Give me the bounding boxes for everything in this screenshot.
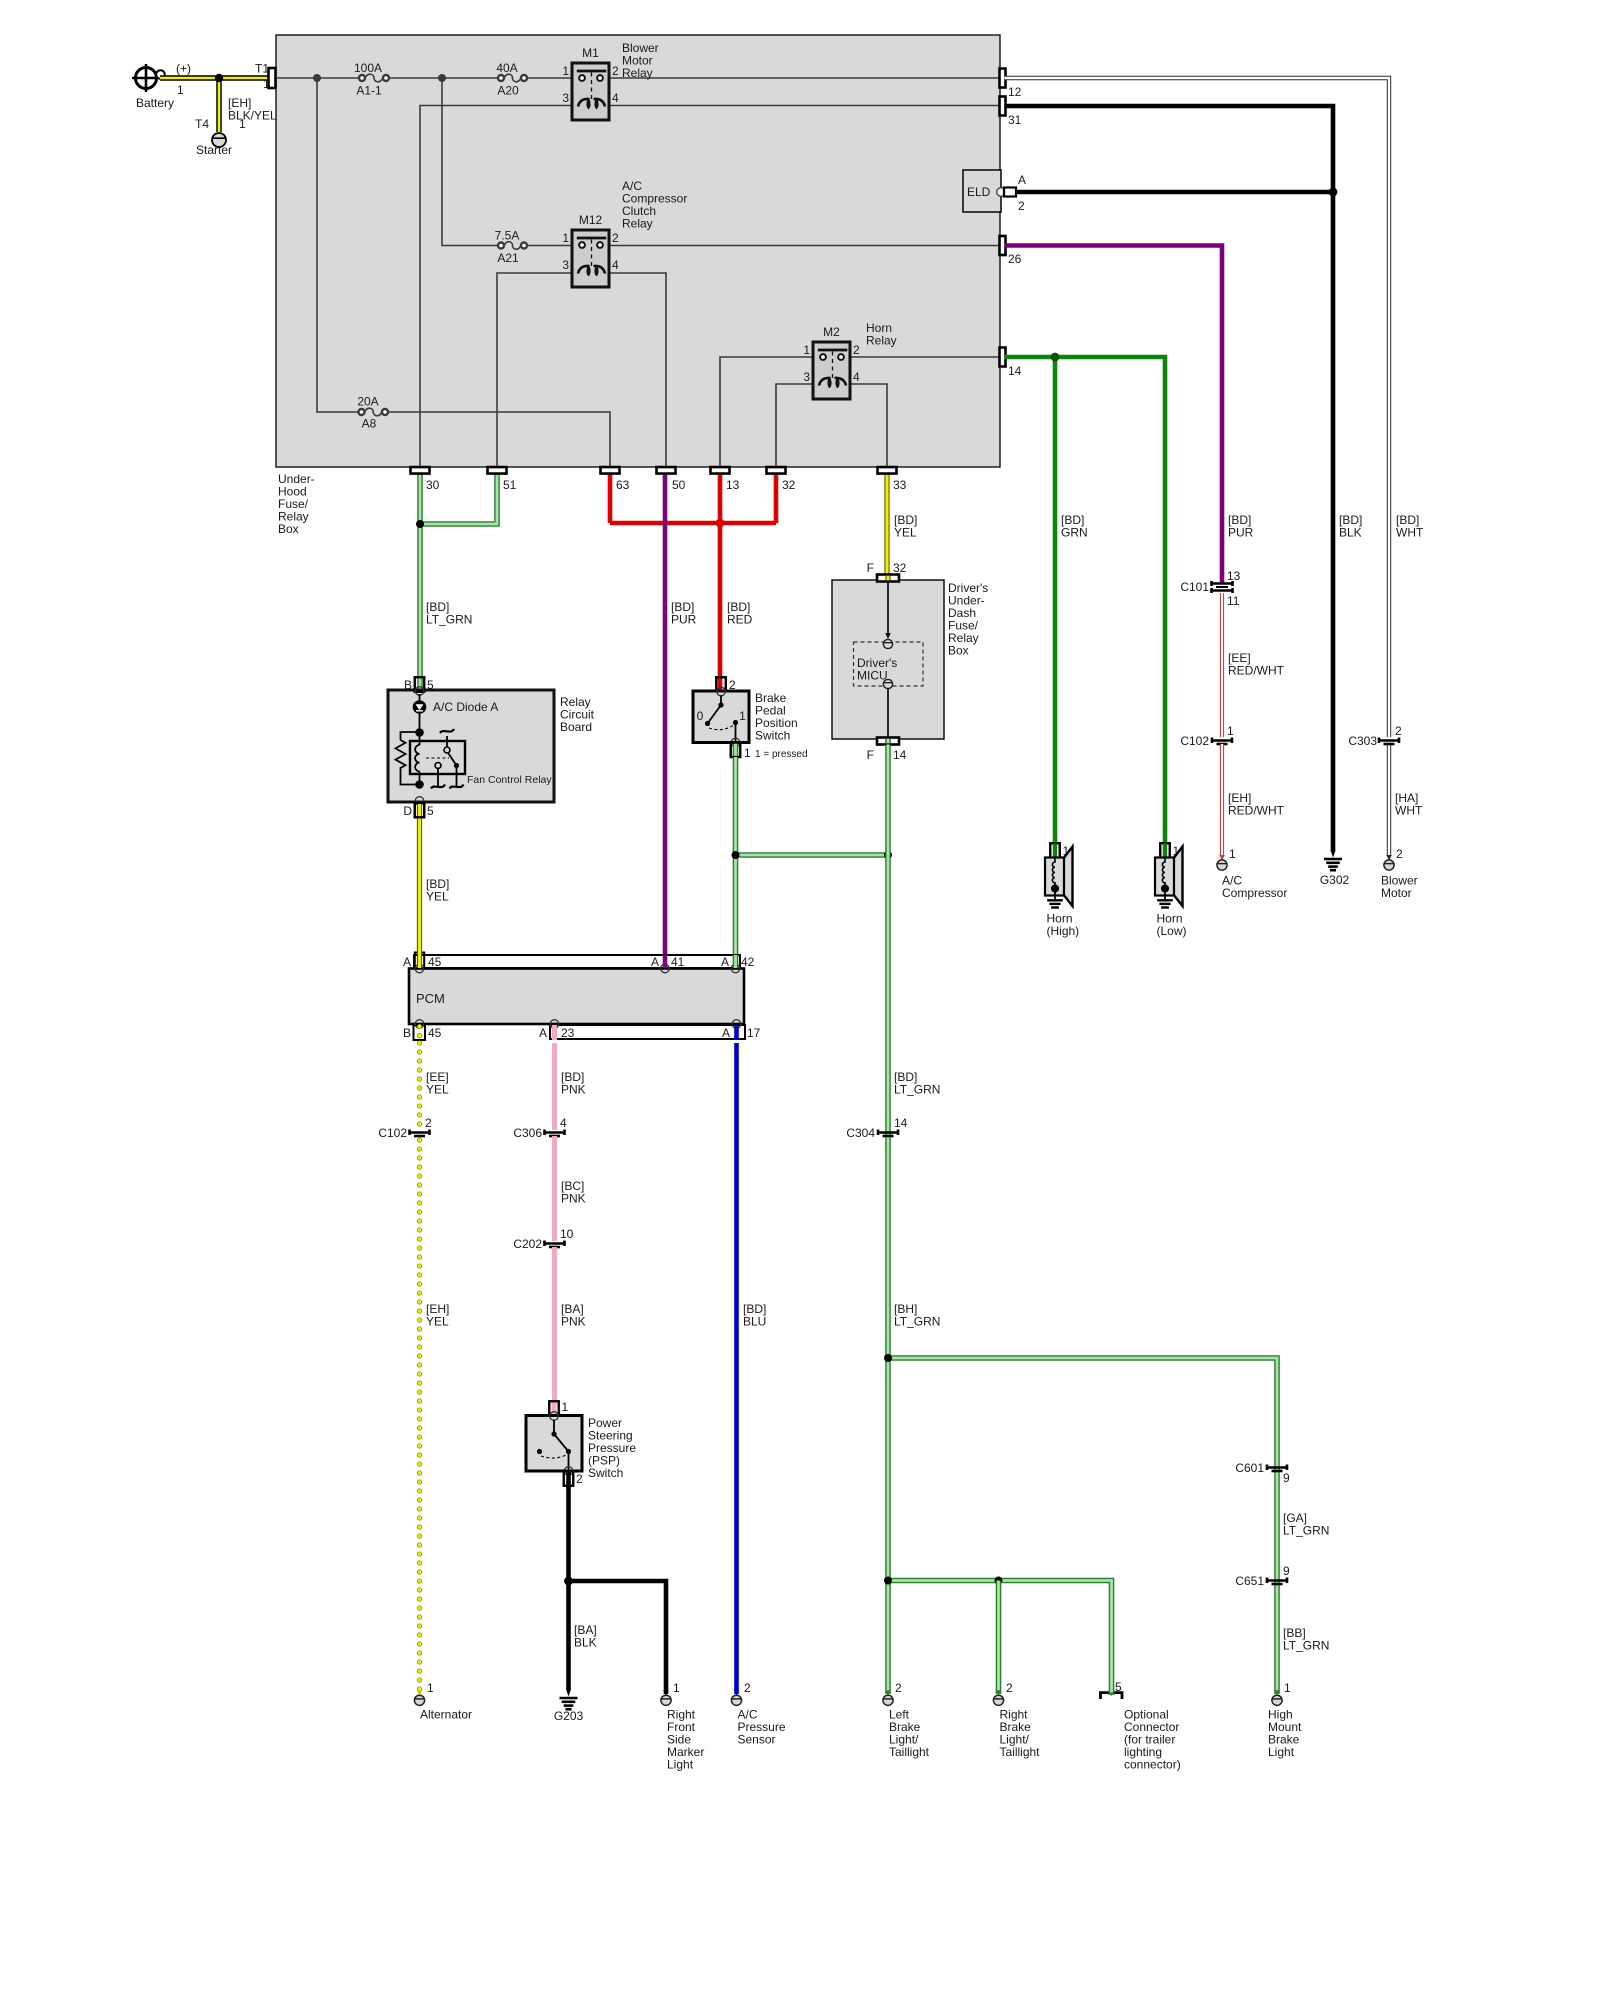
wire [BD] WHT pin 12 to C303 and blower motor	[1005, 78, 1390, 737]
svg-text:C102: C102	[1180, 734, 1209, 748]
svg-text:Relay: Relay	[866, 334, 897, 348]
svg-text:Box: Box	[278, 522, 299, 536]
switch break continuation bottom left	[437, 769, 439, 787]
svg-text:4: 4	[853, 370, 860, 384]
svg-text:1: 1	[803, 343, 810, 357]
svg-text:B: B	[403, 1026, 411, 1040]
svg-text:D: D	[403, 804, 412, 818]
svg-text:3: 3	[562, 91, 569, 105]
battery	[136, 68, 157, 89]
A/C diode A	[419, 694, 421, 701]
wire M12 pin4 to connector 50	[609, 273, 666, 467]
svg-text:7.5A: 7.5A	[495, 229, 520, 243]
junction board bottom	[415, 780, 424, 789]
svg-text:1: 1	[562, 64, 569, 78]
relay M1 blower motor relay	[572, 63, 609, 120]
wire [BD] LT_GRN main down to brake lights	[885, 855, 891, 1694]
svg-text:2: 2	[1396, 847, 1403, 861]
svg-text:2: 2	[1395, 724, 1402, 738]
svg-text:(+): (+)	[176, 62, 191, 76]
blower motor terminal	[1386, 855, 1392, 861]
junction blk lower	[564, 1577, 573, 1586]
svg-text:Board: Board	[560, 720, 592, 734]
wire [EH] RED/WHT C102 to A/C compressor	[1220, 744, 1224, 856]
svg-text:Sensor: Sensor	[738, 1733, 776, 1747]
connector C303 pin 2	[1379, 738, 1399, 744]
wire [BD] YEL relay board D5 to PCM A45	[417, 804, 422, 966]
svg-text:PCM: PCM	[416, 991, 445, 1006]
connector B5	[415, 677, 425, 692]
wire [BD] LT_GRN F14 down	[885, 745, 891, 856]
svg-text:(High): (High)	[1047, 924, 1080, 938]
svg-text:1: 1	[1227, 724, 1234, 738]
svg-text:31: 31	[1008, 113, 1022, 127]
connector 33	[878, 467, 897, 474]
svg-text:RED/WHT: RED/WHT	[1228, 664, 1285, 678]
connector C306 pin 4	[545, 1130, 565, 1136]
svg-text:T1: T1	[255, 62, 269, 76]
wire [BA] BLK PSP to G203	[566, 1486, 571, 1689]
svg-text:13: 13	[1227, 569, 1241, 583]
svg-text:2: 2	[425, 1116, 432, 1130]
junction red	[716, 519, 725, 528]
svg-text:Motor: Motor	[1381, 886, 1412, 900]
svg-text:45: 45	[428, 1026, 442, 1040]
svg-text:G302: G302	[1320, 873, 1350, 887]
svg-text:BLK/YEL: BLK/YEL	[228, 109, 277, 123]
svg-text:C306: C306	[513, 1126, 542, 1140]
connector T1	[269, 68, 276, 88]
connector C651 pin 9	[1267, 1578, 1287, 1584]
fuse 40A A20	[504, 74, 521, 82]
wire [BD] RED connector 63	[608, 467, 613, 523]
connector C102 pin 2	[410, 1130, 430, 1136]
svg-text:PUR: PUR	[671, 613, 697, 627]
svg-text:LT_GRN: LT_GRN	[426, 613, 472, 627]
wire [BD] PUR pin 26 to C101	[1005, 246, 1223, 585]
PCM connector row top	[414, 955, 740, 968]
svg-text:F: F	[867, 748, 874, 762]
svg-text:9: 9	[1283, 1564, 1290, 1578]
svg-text:2: 2	[895, 1681, 902, 1695]
svg-text:100A: 100A	[354, 61, 382, 75]
svg-text:9: 9	[1283, 1471, 1290, 1485]
svg-text:M2: M2	[823, 325, 840, 339]
svg-text:Relay: Relay	[622, 66, 653, 80]
svg-text:5: 5	[427, 678, 434, 692]
horn (high)	[1050, 843, 1060, 858]
connector F32	[877, 575, 899, 582]
wire [BD] BLU PCM A17 to A/C pressure sensor	[734, 1043, 739, 1694]
svg-text:MICU: MICU	[857, 669, 888, 683]
svg-text:A/C Diode A: A/C Diode A	[433, 700, 498, 714]
ELD unit	[963, 170, 1001, 212]
wire M2 pin2 to pin 14	[851, 356, 999, 358]
fan control relay coil	[415, 745, 419, 771]
PSP switch pin 2 connector	[566, 1472, 571, 1486]
horn (low)	[1160, 843, 1170, 858]
svg-text:10: 10	[560, 1227, 574, 1241]
svg-text:11: 11	[1227, 594, 1240, 608]
svg-text:33: 33	[893, 478, 907, 492]
svg-text:2: 2	[1006, 1681, 1013, 1695]
svg-text:1: 1	[263, 77, 270, 91]
svg-text:17: 17	[747, 1026, 761, 1040]
high mount brake light terminal	[1274, 1690, 1280, 1696]
svg-text:Taillight: Taillight	[889, 1745, 930, 1759]
wire ELD to black bus	[1016, 190, 1333, 195]
resistor	[401, 732, 420, 740]
svg-text:14: 14	[1008, 364, 1022, 378]
svg-text:1: 1	[177, 83, 184, 97]
svg-text:LT_GRN: LT_GRN	[1283, 1639, 1329, 1653]
svg-text:B: B	[404, 678, 412, 692]
svg-text:1: 1	[427, 1681, 434, 1695]
svg-text:0: 0	[697, 709, 704, 723]
svg-text:30: 30	[426, 478, 440, 492]
fuse 100A A1-1	[365, 74, 383, 82]
svg-text:Light: Light	[667, 1758, 694, 1772]
wire to 20A fuse and connector 63	[317, 78, 359, 412]
power steering pressure switch	[526, 1416, 582, 1472]
wire [EE] YEL PCM B45 to C102 dotted	[417, 1043, 422, 1128]
svg-text:23: 23	[561, 1026, 575, 1040]
junction board top	[415, 728, 424, 737]
svg-text:LT_GRN: LT_GRN	[1283, 1524, 1329, 1538]
wire [BD] LT_GRN cross link	[736, 852, 889, 858]
junction lt_grn 1580 left	[884, 1577, 892, 1585]
fuse 20A A8	[365, 408, 383, 416]
svg-text:YEL: YEL	[426, 890, 449, 904]
wire [BD] GRN pin 14 to horns	[1005, 357, 1166, 845]
svg-text:45: 45	[428, 955, 442, 969]
svg-text:32: 32	[782, 478, 796, 492]
connector 13	[711, 467, 730, 474]
svg-text:WHT: WHT	[1396, 526, 1424, 540]
junction grn	[1051, 353, 1060, 362]
svg-text:Fan Control Relay: Fan Control Relay	[467, 774, 552, 786]
connector 32	[767, 467, 786, 474]
wire M1 pin3 to connector 30	[420, 106, 572, 468]
svg-text:G203: G203	[554, 1709, 584, 1723]
svg-text:1: 1	[562, 231, 569, 245]
left brake light terminal	[885, 1690, 891, 1696]
wire M12 pin3 to connector 51	[497, 273, 572, 467]
svg-text:PNK: PNK	[561, 1083, 586, 1097]
svg-text:1: 1	[739, 709, 746, 723]
svg-text:4: 4	[560, 1116, 567, 1130]
wire stubs through PCM connector rows	[417, 951, 422, 968]
A/C compressor terminal	[1219, 855, 1225, 861]
connector 51	[488, 467, 507, 474]
svg-text:Compressor: Compressor	[1222, 886, 1287, 900]
svg-text:BLU: BLU	[743, 1315, 766, 1329]
svg-text:1: 1	[673, 1681, 680, 1695]
wire M2 pin3 to connector 32	[776, 384, 813, 467]
svg-text:Starter: Starter	[196, 143, 232, 157]
svg-text:BLK: BLK	[574, 1636, 597, 1650]
svg-text:40A: 40A	[496, 61, 517, 75]
svg-text:C101: C101	[1180, 580, 1209, 594]
svg-text:WHT: WHT	[1395, 804, 1423, 818]
svg-text:4: 4	[612, 91, 619, 105]
alternator terminal	[417, 1690, 423, 1696]
wire [BD] YEL connector 33 to F32	[884, 467, 889, 574]
svg-text:20A: 20A	[357, 395, 378, 409]
wire [BD] RED horizontal	[610, 521, 776, 526]
svg-text:PUR: PUR	[1228, 526, 1254, 540]
svg-text:M1: M1	[582, 46, 599, 60]
svg-text:Light: Light	[1268, 1745, 1295, 1759]
wire [EH] YEL C102 to alternator dotted	[417, 1140, 422, 1692]
svg-text:2: 2	[853, 343, 860, 357]
switch break continuation top	[446, 736, 448, 747]
connector C202 pin 10	[545, 1241, 565, 1247]
wire battery positive [EH] BLK/YEL	[160, 75, 272, 81]
junction lt_grn right	[884, 851, 892, 859]
wire starter drop BLK/YEL	[216, 78, 222, 132]
junction lt_grn left	[732, 851, 740, 859]
relay M2 horn relay	[813, 342, 850, 399]
junction battery/starter	[215, 74, 223, 82]
relay M12 A/C compressor clutch relay	[572, 230, 609, 287]
svg-text:Switch: Switch	[755, 729, 790, 743]
brake pedal position switch pin 1 connector	[733, 743, 739, 758]
junction node bus/7.5A	[438, 74, 446, 82]
MICU internal wire top	[887, 582, 889, 637]
svg-text:BLK: BLK	[1339, 526, 1362, 540]
fan control relay switch	[444, 747, 450, 753]
svg-text:26: 26	[1008, 252, 1022, 266]
svg-text:A: A	[721, 955, 729, 969]
svg-text:4: 4	[612, 258, 619, 272]
svg-text:Alternator: Alternator	[420, 1708, 472, 1722]
pin 14 connector	[1000, 348, 1006, 367]
svg-text:A: A	[651, 955, 659, 969]
svg-text:2: 2	[612, 64, 619, 78]
svg-text:2: 2	[744, 1681, 751, 1695]
svg-text:13: 13	[726, 478, 740, 492]
svg-text:A8: A8	[362, 417, 377, 431]
svg-text:5: 5	[427, 804, 434, 818]
brake pedal position switch	[693, 691, 749, 743]
right front side marker light terminal	[663, 1690, 669, 1696]
svg-text:C303: C303	[1348, 734, 1377, 748]
wire M2 pin1 to connector 13	[720, 357, 813, 467]
svg-text:Taillight: Taillight	[1000, 1745, 1041, 1759]
svg-text:12: 12	[1008, 85, 1022, 99]
connector F14	[877, 738, 899, 745]
svg-text:3: 3	[803, 370, 810, 384]
driver's MICU	[854, 642, 924, 686]
svg-text:51: 51	[503, 478, 517, 492]
svg-text:A20: A20	[497, 84, 519, 98]
svg-text:M12: M12	[579, 213, 603, 227]
junction node bus/20A	[313, 74, 321, 82]
starter terminal T4	[212, 133, 226, 147]
svg-text:41: 41	[671, 955, 685, 969]
fan control relay box	[410, 741, 465, 774]
svg-text:1: 1	[1284, 1681, 1291, 1695]
fuse 7.5A A21	[504, 242, 521, 250]
svg-text:2: 2	[576, 1472, 583, 1486]
svg-text:C651: C651	[1235, 1574, 1264, 1588]
wire [BA] PNK C202 to PSP switch	[552, 1247, 557, 1401]
wire M1 pin2 to pin 12	[609, 77, 999, 79]
wire M1 pin4 to pin 31	[609, 105, 999, 107]
connector C102 pin 1	[1212, 738, 1232, 744]
svg-text:14: 14	[894, 1116, 908, 1130]
connector 30	[411, 467, 430, 474]
svg-text:Battery: Battery	[136, 96, 174, 110]
wire [EE] RED/WHT C101 to C102	[1220, 593, 1224, 737]
wire [BH] LT_GRN branch to right brake and optional connector	[888, 1581, 1112, 1691]
PCM pin B45	[414, 1025, 426, 1040]
wire [BD] PUR connector 50 to PCM A41	[663, 467, 668, 966]
switch break continuation bottom right	[456, 768, 458, 786]
svg-text:GRN: GRN	[1061, 526, 1088, 540]
wire diode to coil	[419, 714, 421, 746]
junction lt_grn	[416, 520, 424, 528]
svg-text:Relay: Relay	[622, 217, 653, 231]
svg-text:connector): connector)	[1124, 1758, 1181, 1772]
wire [BD] LT_GRN brake switch to PCM A42	[733, 757, 739, 966]
svg-text:RED/WHT: RED/WHT	[1228, 804, 1285, 818]
svg-text:A: A	[722, 1026, 730, 1040]
connector C601 pin 9	[1267, 1465, 1287, 1471]
svg-text:5: 5	[1115, 1680, 1122, 1694]
pin 26 connector	[1000, 236, 1006, 255]
wire to 7.5A fuse and M12 pin1	[442, 78, 498, 246]
svg-text:PNK: PNK	[561, 1192, 586, 1206]
svg-text:YEL: YEL	[426, 1083, 449, 1097]
svg-text:C202: C202	[513, 1237, 542, 1251]
connector 63	[601, 467, 620, 474]
svg-text:C102: C102	[378, 1126, 407, 1140]
PCM connector row bottom	[550, 1025, 745, 1039]
PCM	[409, 969, 744, 1025]
svg-text:42: 42	[741, 955, 755, 969]
junction lt_grn 1580 right	[995, 1577, 1003, 1585]
svg-text:C304: C304	[846, 1126, 875, 1140]
wire M2 pin4 to connector 33	[851, 384, 887, 467]
svg-text:YEL: YEL	[426, 1315, 449, 1329]
pin 31 connector	[1000, 97, 1006, 116]
svg-text:F: F	[867, 561, 874, 575]
MICU internal wire bottom	[887, 689, 889, 738]
wire [BH] LT_GRN right brake drop	[996, 1581, 1002, 1695]
svg-text:1 = pressed: 1 = pressed	[755, 749, 808, 760]
svg-text:PNK: PNK	[561, 1315, 586, 1329]
svg-text:YEL: YEL	[894, 526, 917, 540]
svg-text:A1-1: A1-1	[356, 84, 382, 98]
brake pedal position switch pin 2 connector	[718, 677, 723, 690]
wire [BA] BLK branch to right front side marker light	[569, 1581, 667, 1694]
svg-text:63: 63	[616, 478, 630, 492]
connector C304 pin 14	[878, 1130, 898, 1136]
wire [BD] BLK pin 31 to G302	[1005, 106, 1334, 850]
svg-text:Box: Box	[948, 644, 969, 658]
connector 50	[657, 467, 676, 474]
ground G302	[1330, 850, 1335, 858]
wire [BD] RED connector 13 to brake pedal switch	[718, 467, 723, 677]
svg-text:2: 2	[1018, 199, 1025, 213]
wire [BD] LT_GRN connector 51 elbow	[420, 467, 497, 524]
svg-text:1: 1	[239, 117, 246, 131]
optional connector pin 5	[1101, 1693, 1123, 1699]
svg-text:14: 14	[893, 748, 907, 762]
ground G203	[566, 1689, 571, 1697]
svg-text:2: 2	[612, 231, 619, 245]
relay circuit board	[388, 690, 554, 802]
wire [BC] PNK C306 to C202	[552, 1136, 557, 1241]
svg-text:(Low): (Low)	[1157, 924, 1187, 938]
svg-text:50: 50	[672, 478, 686, 492]
svg-text:1: 1	[562, 1400, 569, 1414]
wire [BD] RED connector 32	[774, 467, 779, 523]
wire M12 pin2 to pin 26	[609, 245, 999, 247]
svg-text:1: 1	[1229, 847, 1236, 861]
svg-text:RED: RED	[727, 613, 753, 627]
connector D5	[415, 797, 424, 806]
connector C101 pins 13/11	[1212, 581, 1233, 586]
svg-text:A: A	[1018, 173, 1026, 187]
A/C pressure sensor terminal	[734, 1690, 740, 1696]
svg-text:LT_GRN: LT_GRN	[894, 1315, 940, 1329]
PSP switch pin 1 connector	[552, 1401, 557, 1414]
wire [BD] PNK PCM A23 to C306	[552, 1043, 557, 1130]
svg-text:A21: A21	[497, 251, 519, 265]
svg-text:A: A	[539, 1026, 547, 1040]
svg-text:LT_GRN: LT_GRN	[894, 1083, 940, 1097]
svg-text:C601: C601	[1235, 1461, 1264, 1475]
under-hood fuse/relay box	[276, 35, 1000, 467]
junction lt_grn 1358	[884, 1354, 892, 1362]
svg-text:1: 1	[744, 746, 751, 760]
svg-text:32: 32	[893, 561, 907, 575]
wire bus from T1 to M1 pin1	[276, 77, 359, 79]
driver's under-dash fuse/relay box	[832, 580, 944, 739]
svg-text:ELD: ELD	[967, 185, 991, 199]
right brake light terminal	[996, 1690, 1002, 1696]
svg-text:T4: T4	[195, 117, 209, 131]
svg-text:A: A	[403, 955, 411, 969]
wire [BD] LT_GRN connector 30 to relay circuit board B5	[417, 467, 423, 690]
pin 12 connector	[1000, 69, 1006, 88]
wire [BH] LT_GRN branch to C601 high mount	[888, 1358, 1277, 1694]
svg-text:Switch: Switch	[588, 1466, 623, 1480]
svg-text:3: 3	[562, 258, 569, 272]
junction blk	[1329, 188, 1338, 197]
PCM pin A45	[415, 953, 424, 969]
